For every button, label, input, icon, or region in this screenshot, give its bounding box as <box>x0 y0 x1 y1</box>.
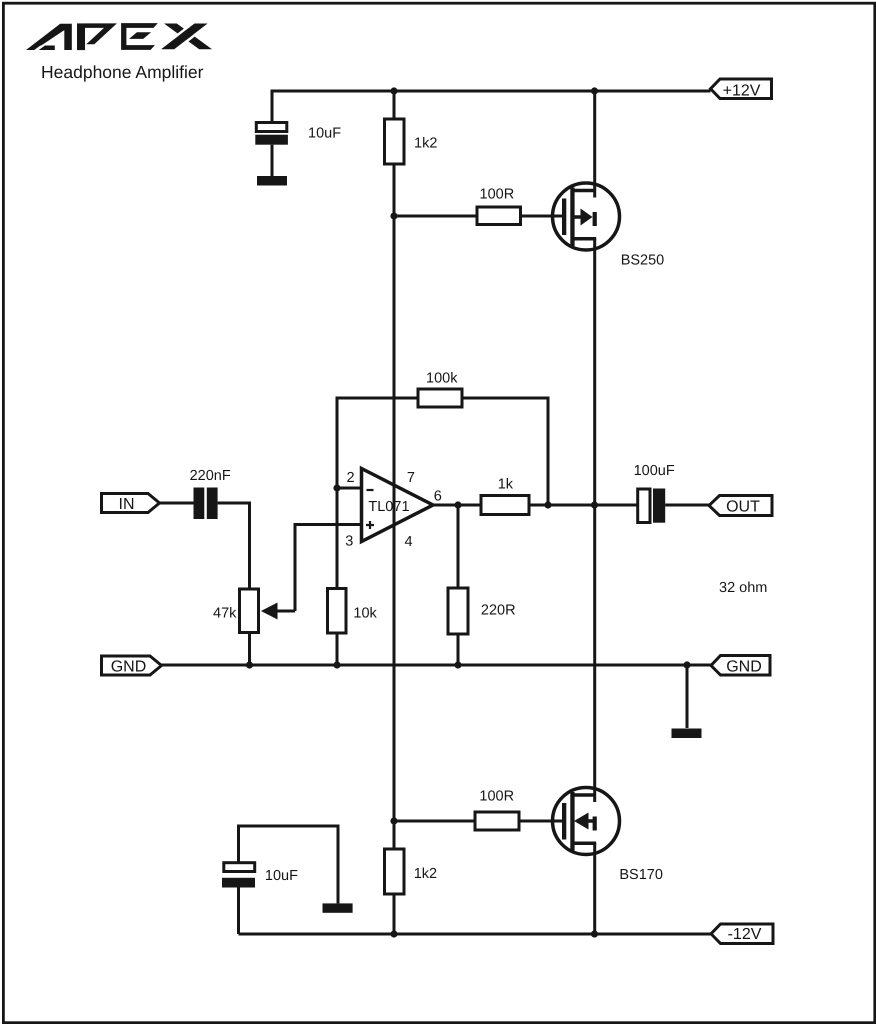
svg-text:3: 3 <box>345 534 353 550</box>
svg-text:100uF: 100uF <box>634 463 675 479</box>
op-amp U1 TL071 <box>362 469 434 542</box>
resistor R8 1k2 bottom <box>385 849 405 894</box>
wire 100R to gate Q2 <box>519 820 562 823</box>
node 10k/gnd <box>333 661 340 668</box>
wire 10k bottom <box>336 633 339 665</box>
feedback wire up <box>337 398 418 488</box>
potentiometer P1 47k <box>240 589 259 633</box>
resistor R2 100R <box>477 207 521 225</box>
resistor R3 100k <box>418 389 462 407</box>
wire gate to 100R <box>394 215 477 218</box>
wire 220R <box>457 505 460 588</box>
svg-text:6: 6 <box>434 489 442 505</box>
node gate tap top <box>390 212 397 219</box>
connector +12V <box>711 79 772 99</box>
svg-text:220nF: 220nF <box>190 468 231 484</box>
svg-text:OUT: OUT <box>726 498 760 515</box>
svg-text:10uF: 10uF <box>265 868 298 884</box>
node Q2/rail <box>591 930 598 937</box>
letter E <box>121 23 158 50</box>
connector GND left <box>102 656 162 675</box>
connector GND right <box>711 656 770 676</box>
resistor R7 100R <box>475 812 519 830</box>
ground (bottom) <box>323 903 353 912</box>
wire C4 to rail <box>237 888 240 935</box>
wire 220R bottom <box>457 634 460 665</box>
svg-text:7: 7 <box>407 470 415 486</box>
svg-text:Headphone Amplifier: Headphone Amplifier <box>41 62 204 82</box>
wire 10k top <box>336 488 339 589</box>
bottom loop wire <box>239 826 339 903</box>
wire C3 to OUT <box>665 504 709 507</box>
ground rail <box>162 664 712 667</box>
svg-text:GND: GND <box>111 658 147 675</box>
wire gate to 100R bottom <box>394 820 475 823</box>
node pin2 <box>333 484 340 491</box>
svg-text:+12V: +12V <box>723 82 761 99</box>
svg-text:10k: 10k <box>353 606 377 622</box>
svg-text:1k2: 1k2 <box>414 866 437 882</box>
svg-text:4: 4 <box>405 534 413 550</box>
letter A <box>26 24 72 50</box>
transistor Q2 BS170 <box>553 505 620 934</box>
node 1k2b/rail <box>390 930 397 937</box>
svg-text:BS170: BS170 <box>619 867 663 883</box>
feedback wire right <box>462 398 548 505</box>
minus symbol <box>367 489 374 491</box>
svg-text:BS250: BS250 <box>621 253 665 269</box>
svg-text:2: 2 <box>347 470 355 486</box>
resistor R4 10k <box>328 589 347 634</box>
connector OUT <box>709 496 772 516</box>
svg-text:100R: 100R <box>480 187 515 203</box>
wire 1k2b bottom <box>393 894 396 934</box>
output wire after 1k <box>529 504 638 507</box>
node top rail / BS250 drain <box>591 87 598 94</box>
svg-text:1k: 1k <box>498 477 514 493</box>
connector IN <box>102 494 160 513</box>
svg-text:100R: 100R <box>479 788 514 804</box>
wire IN to C2 <box>160 502 194 505</box>
plus symbol <box>366 521 374 529</box>
wire 100R to gate <box>521 215 563 218</box>
wire gnd drop <box>686 665 689 728</box>
top rail wire <box>272 90 711 93</box>
resistor R5 1k <box>481 496 529 515</box>
svg-text:220R: 220R <box>481 603 516 619</box>
logo APEX <box>26 23 212 52</box>
output wire <box>433 504 481 507</box>
bottom rail wire <box>239 933 711 936</box>
ground (C1) <box>257 176 287 186</box>
node 220R/gnd <box>454 661 461 668</box>
wire 1k2 top <box>393 91 396 119</box>
wire C2 to pot <box>218 503 250 589</box>
transistor Q1 BS250 <box>553 91 620 505</box>
node gate tap bottom <box>390 817 397 824</box>
svg-text:TL071: TL071 <box>368 499 409 515</box>
capacitor C2 220nF <box>194 488 218 520</box>
capacitor C1 10uF <box>255 123 288 177</box>
svg-text:-12V: -12V <box>728 926 762 943</box>
capacitor C4 10uF bottom <box>222 863 255 888</box>
node feedback join <box>544 501 551 508</box>
svg-text:1k2: 1k2 <box>414 136 437 152</box>
wire pin3 <box>295 525 362 612</box>
letter X <box>164 24 212 50</box>
node pot/gnd <box>246 661 253 668</box>
svg-text:10uF: 10uF <box>308 126 341 142</box>
svg-text:32 ohm: 32 ohm <box>719 580 767 596</box>
wiper arrow <box>261 603 295 620</box>
node top rail / 1k2 <box>390 87 397 94</box>
svg-text:47k: 47k <box>213 606 237 622</box>
letter P <box>77 23 85 50</box>
node gnd symbol tap <box>683 661 690 668</box>
wire to C1 <box>271 90 274 125</box>
node output / drain rail <box>591 501 598 508</box>
ground (right) <box>672 729 702 739</box>
svg-text:GND: GND <box>726 658 762 675</box>
capacitor C3 100uF <box>638 489 666 523</box>
wire pot bottom <box>248 633 251 666</box>
resistor R1 1k2 <box>385 119 405 164</box>
svg-text:100k: 100k <box>426 371 458 387</box>
wire pin2 <box>337 487 362 490</box>
connector -12V <box>711 924 773 944</box>
node 220R tap <box>454 501 461 508</box>
resistor R6 220R <box>448 588 468 634</box>
svg-text:IN: IN <box>119 496 135 513</box>
wire main vertical rail <box>393 164 396 849</box>
